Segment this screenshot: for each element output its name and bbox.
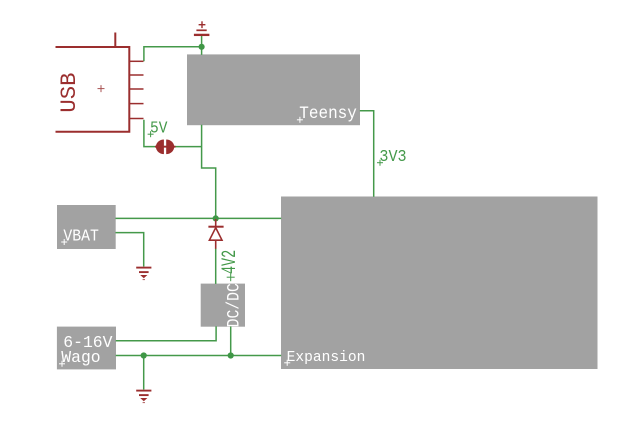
svg-text:Expansion: Expansion [287,350,366,366]
svg-text:DC/DC: DC/DC [225,283,244,327]
svg-text:Teensy: Teensy [299,103,357,123]
svg-text:5V: 5V [150,119,168,138]
svg-text:USB: USB [56,72,82,112]
svg-text:Wago: Wago [61,348,100,367]
svg-text:3V3: 3V3 [379,147,406,166]
svg-text:VBAT: VBAT [63,227,99,246]
svg-text:4V2: 4V2 [218,250,242,274]
